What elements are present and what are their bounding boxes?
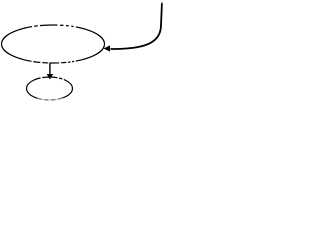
curved arrow from top-right	[111, 2, 163, 50]
large ellipse	[2, 25, 105, 63]
vertical arrow	[49, 63, 51, 75]
arrowhead into large ellipse	[104, 45, 111, 51]
arrowhead into small ellipse	[47, 74, 53, 80]
small ellipse	[27, 77, 73, 100]
small ellipse bottom faint zone	[37, 98, 63, 102]
small ellipse top dash gaps	[41, 76, 64, 81]
large ellipse top dash gaps	[32, 24, 76, 29]
large ellipse bottom dash gaps	[32, 60, 76, 66]
curved arrow top fade	[160, 0, 166, 3]
